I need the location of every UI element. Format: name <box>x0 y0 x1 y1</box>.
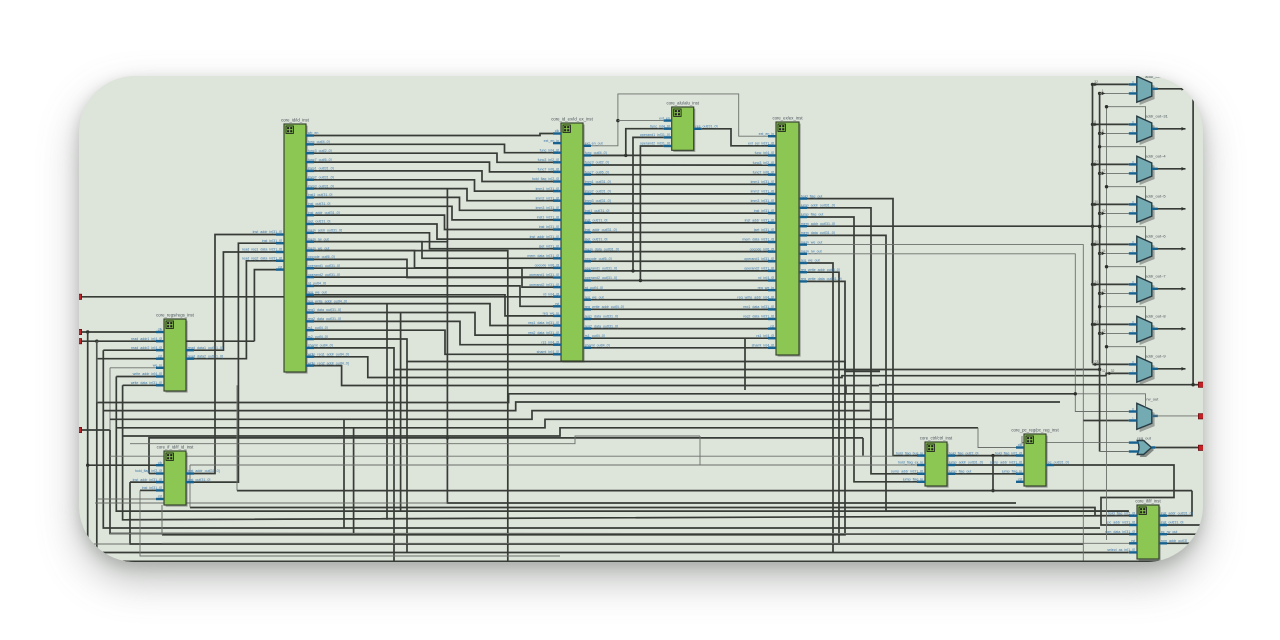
svg-text:read_data1_out[31..0]: read_data1_out[31..0] <box>188 346 223 350</box>
wire 533 <box>110 533 1129 535</box>
svg-text:ext_en_in: ext_en_in <box>759 132 775 136</box>
arrowhead mux5 in0 <box>1094 283 1098 287</box>
wire mux4 out <box>1152 248 1186 250</box>
wire rw select <box>1075 394 1145 408</box>
wire mux0 in0 <box>1093 83 1129 85</box>
wire alu res to ex <box>702 129 768 146</box>
svg-text:reg_write_addr_out[4..0]: reg_write_addr_out[4..0] <box>585 305 624 309</box>
svg-text:imm1_in[31..0]: imm1_in[31..0] <box>536 187 560 191</box>
svg-text:27: 27 <box>1102 169 1106 173</box>
wire 511 bus <box>886 510 1129 512</box>
wire id_ex row 3 to ex <box>591 174 768 176</box>
svg-text:inst_addr_in[31..0]: inst_addr_in[31..0] <box>133 478 163 482</box>
wire mem_rw to pc_reg region <box>314 242 1016 503</box>
arrowhead mux0 in1 <box>1102 92 1106 96</box>
arrowhead mux4 in1 <box>1102 252 1106 256</box>
svg-text:ext_en_out: ext_en_out <box>585 142 603 146</box>
wire id row 18 jog <box>314 295 553 316</box>
svg-text:write_data_in[31..0]: write_data_in[31..0] <box>131 381 162 385</box>
wire mux2 in1 <box>1100 172 1129 174</box>
wire mux2 select <box>1100 147 1146 161</box>
junction clk if_id <box>86 464 89 467</box>
svg-text:jset_out[31..0]: jset_out[31..0] <box>307 220 331 224</box>
junction mux0 in1 <box>1098 92 1101 95</box>
wire id_ex row 12 to ex <box>591 260 768 262</box>
svg-text:23: 23 <box>1102 289 1106 293</box>
svg-text:inst_in[31..0]: inst_in[31..0] <box>262 239 282 243</box>
svg-text:reg_write_addr_out[4..0]: reg_write_addr_out[4..0] <box>308 299 347 303</box>
svg-text:clk: clk <box>1018 443 1023 447</box>
svg-text:jump_addr_in[31..0]: jump_addr_in[31..0] <box>890 470 923 474</box>
module instance core_if_id/if_id_inst <box>133 445 220 507</box>
svg-text:hold_flag_in[2..0]: hold_flag_in[2..0] <box>995 451 1022 455</box>
arrowhead mux4 <box>1182 247 1186 251</box>
port input port rst <box>76 339 81 344</box>
svg-text:inst1_in[31..0]: inst1_in[31..0] <box>537 216 559 220</box>
wire id_ex row 2 to ex <box>591 164 768 166</box>
svg-text:operand2_out[31..0]: operand2_out[31..0] <box>308 273 340 277</box>
wire bus 427-419 <box>116 419 893 428</box>
svg-text:core_id_ex/id_ex_inst: core_id_ex/id_ex_inst <box>551 117 593 122</box>
wire ctrl to pc_reg 0 <box>955 455 1016 457</box>
svg-text:reg2_data_in[31..0]: reg2_data_in[31..0] <box>743 315 774 319</box>
arrowhead mux2 in0 <box>1094 163 1098 167</box>
svg-text:hold_flag_in[2..0]: hold_flag_in[2..0] <box>532 177 559 181</box>
wire mux1 in1 <box>1100 132 1129 134</box>
arrowhead mux1 in1 <box>1102 132 1106 136</box>
junction out trunk <box>1191 383 1194 386</box>
svg-text:rw_out: rw_out <box>1146 397 1159 402</box>
wire mux6 in1 <box>1100 332 1129 334</box>
svg-text:rs1_out[4..0]: rs1_out[4..0] <box>308 326 328 330</box>
svg-text:0: 0 <box>1132 201 1134 205</box>
svg-text:jump_addr_out[31..0]: jump_addr_out[31..0] <box>800 204 835 208</box>
wire mux5 in0 <box>1093 283 1129 285</box>
wire mem bus to port <box>879 384 1199 386</box>
svg-text:addr_out~30: addr_out~30 <box>1145 76 1168 79</box>
wire mem_we to rw in1 <box>1083 420 1129 422</box>
module instance core_regs/regs_inst <box>131 313 223 393</box>
wire rst east <box>97 340 255 342</box>
svg-text:mem_data_in[31..0]: mem_data_in[31..0] <box>742 238 774 242</box>
wire v162 <box>161 505 163 535</box>
svg-text:inst_out[31..0]: inst_out[31..0] <box>188 478 211 482</box>
junction mux2 sel <box>1098 145 1101 148</box>
svg-text:write_reg2_addr_out[4..0]: write_reg2_addr_out[4..0] <box>308 361 349 365</box>
wire 437 down to ctrl <box>862 438 864 456</box>
svg-text:ext_en: ext_en <box>659 116 670 120</box>
svg-text:1: 1 <box>1132 417 1134 421</box>
svg-text:func3_out[2..0]: func3_out[2..0] <box>585 161 609 165</box>
port output port reg <box>1198 445 1203 450</box>
arrowhead mux7 <box>1182 367 1186 371</box>
wire if pc_rw out <box>1167 533 1203 535</box>
wire mem_addr bus <box>807 225 1100 227</box>
svg-text:reg1_data_out[31..0]: reg1_data_out[31..0] <box>585 315 618 319</box>
tie <box>878 384 880 387</box>
module instance core_ex/ex_inst <box>737 116 841 357</box>
wire read_data1 to id <box>194 252 276 350</box>
svg-text:mem_data_out[31..0]: mem_data_out[31..0] <box>585 247 619 251</box>
wire if inst_addr out <box>1167 491 1192 516</box>
svg-text:34: 34 <box>1102 249 1106 253</box>
svg-text:0: 0 <box>1132 81 1134 85</box>
wire mux7 in0 terminal <box>1093 363 1129 365</box>
wire write_data <box>123 384 156 386</box>
svg-text:reg_out: reg_out <box>1137 435 1151 440</box>
wire v1022 <box>1021 436 1023 445</box>
svg-text:rd_out[4..0]: rd_out[4..0] <box>585 286 603 290</box>
wire if inst out <box>1167 524 1203 526</box>
arrowhead mux7 in0 <box>1095 363 1099 367</box>
svg-text:operand2_in[31..0]: operand2_in[31..0] <box>744 267 774 271</box>
wire mux1 in0 <box>1093 123 1129 125</box>
wire reg_out out <box>1155 447 1199 449</box>
wire v745 ext <box>744 338 746 390</box>
svg-text:imm1_out[31..0]: imm1_out[31..0] <box>585 180 611 184</box>
wire if rom_addr out <box>1167 542 1203 544</box>
wire mux0 out bend <box>1186 89 1194 99</box>
wire bus write_reg2 <box>314 366 879 386</box>
wire clk bottom bus <box>88 465 1129 552</box>
svg-text:operand1_out[31..0]: operand1_out[31..0] <box>585 267 617 271</box>
svg-text:opcode_in[6..0]: opcode_in[6..0] <box>535 264 560 268</box>
junction mux6 in0 <box>1091 323 1094 326</box>
wire id row 20 jog <box>314 313 553 336</box>
svg-text:core_ctrl/ctrl_inst: core_ctrl/ctrl_inst <box>920 436 953 441</box>
wire mux4 select <box>1100 227 1146 241</box>
wire id func7_out[6..0] to id_ex <box>314 162 553 172</box>
wire reg_out in0 <box>1022 442 1129 444</box>
svg-text:jset_out[31..0]: jset_out[31..0] <box>584 238 608 242</box>
svg-text:rs1_in[4..0]: rs1_in[4..0] <box>541 340 559 344</box>
svg-text:reg_we_out: reg_we_out <box>585 295 604 299</box>
mux addr mux 2 <box>1129 154 1167 185</box>
svg-text:reg_write_addr_out[4..0]: reg_write_addr_out[4..0] <box>801 268 840 272</box>
svg-text:func3_in[2..0]: func3_in[2..0] <box>538 158 560 162</box>
wire v353 deep <box>353 428 355 534</box>
wire 544 bus <box>130 482 1083 544</box>
wire rw out <box>1152 415 1199 417</box>
arrowhead mux2 <box>1182 167 1186 171</box>
svg-text:func_out[4..0]: func_out[4..0] <box>585 151 607 155</box>
wire hold_flag to if_id <box>149 473 156 475</box>
wire id imm2_out[31..0] to id_ex <box>314 180 553 191</box>
svg-text:1: 1 <box>1132 290 1134 294</box>
svg-text:1: 1 <box>1102 89 1104 93</box>
svg-text:wb_en: wb_en <box>308 131 319 135</box>
arrowhead mux3 in0 <box>1094 203 1098 207</box>
wire clk to if_id <box>88 332 156 465</box>
svg-text:write_addr_in[4..0]: write_addr_in[4..0] <box>133 372 163 376</box>
svg-text:mem_we_out: mem_we_out <box>801 240 823 244</box>
port input port clk <box>76 329 81 334</box>
wire v394 deep <box>393 370 395 562</box>
junction mux5 in0 <box>1091 283 1094 286</box>
svg-text:1: 1 <box>1132 370 1134 374</box>
wire id_ex row 4 to ex <box>591 183 768 185</box>
svg-text:inst_addr_in[31..0]: inst_addr_in[31..0] <box>530 235 560 239</box>
wire 556 <box>140 490 560 556</box>
junction func <box>624 154 627 157</box>
svg-text:reg2_data_out[31..0]: reg2_data_out[31..0] <box>308 317 341 321</box>
svg-text:jset_in[31..0]: jset_in[31..0] <box>753 228 774 232</box>
wire 544 left <box>79 543 130 545</box>
wire id_ex row 15 to ex <box>591 289 768 291</box>
svg-text:func_in[4..0]: func_in[4..0] <box>540 148 560 152</box>
junction mem_addr trunk1 <box>1091 225 1094 228</box>
svg-text:1: 1 <box>1132 130 1134 134</box>
wire mux1 select <box>1107 107 1146 121</box>
arrowhead mux3 in1 <box>1102 212 1106 216</box>
wire id wb_en to id_ex <box>314 134 553 136</box>
svg-text:mem_data_out[31..0]: mem_data_out[31..0] <box>801 231 835 235</box>
svg-text:write_reg1_addr_out[4..0]: write_reg1_addr_out[4..0] <box>308 352 349 356</box>
wire id_ex row 10 to ex <box>591 241 768 243</box>
svg-text:rs1_out[4..0]: rs1_out[4..0] <box>585 334 605 338</box>
svg-text:core_pc_reg/pc_reg_inst: core_pc_reg/pc_reg_inst <box>1011 428 1059 433</box>
wire mux1 out <box>1152 128 1186 130</box>
svg-text:22: 22 <box>1102 329 1106 333</box>
svg-text:read_reg1_data_in[31..0]: read_reg1_data_in[31..0] <box>242 248 282 252</box>
svg-text:pc_out[31..0]: pc_out[31..0] <box>1048 461 1069 465</box>
wire id mem_addr_out[31..0] to id_ex <box>314 233 553 249</box>
junction mux1 sel <box>1105 105 1108 108</box>
wire rst bottom <box>97 359 560 562</box>
wire v447 upper <box>446 189 448 242</box>
wire id_ex row 11 to ex <box>591 251 768 253</box>
svg-text:jump_flag_in: jump_flag_in <box>902 478 923 482</box>
junction mux6 in1 <box>1098 332 1101 335</box>
svg-text:0: 0 <box>1132 361 1134 365</box>
junction mux3 in0 <box>1091 203 1094 206</box>
wire mux3 in0 <box>1093 203 1129 205</box>
svg-text:addr_out~31: addr_out~31 <box>1145 114 1168 119</box>
arrowhead mux3 <box>1182 207 1186 211</box>
svg-text:opcode_out[6..0]: opcode_out[6..0] <box>308 255 335 259</box>
svg-text:rd_in[4..0]: rd_in[4..0] <box>758 276 774 280</box>
svg-text:func3_out[2..0]: func3_out[2..0] <box>308 149 332 153</box>
wire mux3 in1 <box>1100 212 1129 214</box>
wire 490 bus <box>237 490 1192 492</box>
svg-text:shamt_out[4..0]: shamt_out[4..0] <box>585 344 610 348</box>
svg-text:func7_out[6..0]: func7_out[6..0] <box>308 158 332 162</box>
wire inst_addr in <box>130 481 156 483</box>
wire v993 <box>992 456 994 491</box>
svg-text:addr_out~6: addr_out~6 <box>1145 234 1166 239</box>
wire hold to if <box>190 508 1129 516</box>
arrowhead mux1 in0 <box>1094 123 1098 127</box>
svg-text:22: 22 <box>1094 360 1098 364</box>
wire inst in <box>140 489 156 491</box>
svg-text:1: 1 <box>1132 330 1134 334</box>
wire id jset_out[31..0] to id_ex <box>314 224 553 239</box>
svg-text:opcode_out[6..0]: opcode_out[6..0] <box>585 257 612 261</box>
wire read_addr1 <box>103 349 156 351</box>
wire id opcode_out[6..0] to id_ex <box>314 259 553 277</box>
wire v400 deep <box>400 313 402 512</box>
svg-text:8: 8 <box>1094 120 1096 124</box>
svg-text:reg2_data_in[31..0]: reg2_data_in[31..0] <box>528 331 559 335</box>
svg-text:inst_out[31..0]: inst_out[31..0] <box>1161 521 1184 525</box>
svg-text:inst_addr_out[31..0]: inst_addr_out[31..0] <box>1161 511 1193 515</box>
wire v893b <box>892 419 894 455</box>
wire id mem_rw_out to id_ex <box>314 242 553 259</box>
mux addr mux 6 <box>1129 314 1167 345</box>
wire mux3 out <box>1152 208 1186 210</box>
svg-text:func7_out[6..0]: func7_out[6..0] <box>585 170 609 174</box>
svg-text:0: 0 <box>1132 281 1134 285</box>
svg-text:reg1_data_out[31..0]: reg1_data_out[31..0] <box>308 308 341 312</box>
junction mux6 sel <box>1098 305 1101 308</box>
svg-text:read_addr2_in[4..0]: read_addr2_in[4..0] <box>131 346 162 350</box>
wire id func3_out[2..0] to id_ex <box>314 153 553 162</box>
svg-text:inst_addr_in[31..0]: inst_addr_in[31..0] <box>745 218 775 222</box>
svg-text:rs2_out[4..0]: rs2_out[4..0] <box>308 335 328 339</box>
wire rs1 jog <box>591 337 768 339</box>
svg-text:addr_out~8: addr_out~8 <box>1145 314 1166 319</box>
svg-text:ext_sel_in[31..0]: ext_sel_in[31..0] <box>748 142 774 146</box>
svg-text:hold_flag_ex_in: hold_flag_ex_in <box>898 461 923 465</box>
wire mux trunk 3 <box>1106 107 1108 540</box>
svg-text:func_in[4..0]: func_in[4..0] <box>650 124 670 128</box>
junction mem_addr trunk2 <box>1098 225 1101 228</box>
arrowhead mux5 in1 <box>1102 292 1106 296</box>
mux addr mux 4 <box>1129 234 1167 265</box>
svg-text:clk: clk <box>158 328 163 332</box>
wire bus 419-411 <box>110 411 870 420</box>
svg-text:operand1_in[31..0]: operand1_in[31..0] <box>744 257 774 261</box>
module instance core_alu/alu_inst <box>640 101 718 152</box>
junction mux5 sel <box>1105 265 1108 268</box>
wire if_id inst_addr to id <box>194 235 276 474</box>
wire left v97 <box>96 341 98 402</box>
svg-text:inst_out[31..0]: inst_out[31..0] <box>308 202 331 206</box>
wire id row 17 jog <box>314 286 553 306</box>
port output port mem <box>1198 382 1203 387</box>
svg-text:core_ex/ex_inst: core_ex/ex_inst <box>772 116 803 121</box>
wire mux7 in1 terminal <box>1106 373 1129 375</box>
junction mux2 in0 <box>1091 163 1094 166</box>
wire ext_en to alu <box>618 120 664 122</box>
svg-text:read_data2_out[31..0]: read_data2_out[31..0] <box>188 354 223 358</box>
wire id row 15 jog <box>314 268 553 287</box>
wire mux6 select <box>1100 307 1146 321</box>
svg-text:operand2_out[31..0]: operand2_out[31..0] <box>585 276 617 280</box>
wire mux4 in0 <box>1093 243 1129 245</box>
svg-text:imm3_out[31..0]: imm3_out[31..0] <box>308 184 334 188</box>
wire pc_out to if <box>1054 465 1174 525</box>
svg-text:1: 1 <box>1132 210 1134 214</box>
svg-text:core_id/id_inst: core_id/id_inst <box>281 118 310 123</box>
svg-text:jump_addr_in[31..0]: jump_addr_in[31..0] <box>989 461 1022 465</box>
svg-text:addr_out~5: addr_out~5 <box>1145 194 1166 199</box>
arrowhead mux4 in0 <box>1094 243 1098 247</box>
wire if_id rst <box>97 498 156 500</box>
svg-text:mem_rw_out: mem_rw_out <box>308 237 329 241</box>
svg-text:0: 0 <box>1132 121 1134 125</box>
wire ctrl to pc_reg 2 <box>955 473 1016 475</box>
wire mux0 in1 <box>1100 92 1129 94</box>
svg-text:rst: rst <box>158 354 162 358</box>
wire if_id inst to id <box>194 243 276 482</box>
port input port 1 <box>76 294 81 299</box>
wire mux2 out <box>1152 168 1186 170</box>
wire v162b <box>161 505 163 535</box>
wire v870 up <box>869 385 871 411</box>
svg-text:pc_addr_in[31..0]: pc_addr_in[31..0] <box>1107 521 1135 525</box>
wire func to alu stub <box>591 154 626 156</box>
wire id_ex row 9 to ex <box>591 231 768 233</box>
wire mux5 select <box>1107 267 1146 281</box>
wire reg_wdata bottom <box>162 281 845 534</box>
junction mux4 in0 <box>1091 243 1094 246</box>
svg-text:hold_flag_out[2..0]: hold_flag_out[2..0] <box>949 451 979 455</box>
svg-text:core_if/if_inst: core_if/if_inst <box>1135 499 1161 504</box>
wire mux5 in1 <box>1100 292 1129 294</box>
junction mux4 sel <box>1098 225 1101 228</box>
junction ext_en <box>616 119 619 122</box>
wire write_addr bottom <box>116 377 1129 512</box>
arrowhead mux6 <box>1182 327 1186 331</box>
svg-text:mem_rw_out: mem_rw_out <box>801 250 822 254</box>
svg-text:ext_en_in: ext_en_in <box>544 139 560 143</box>
svg-text:inst1_out[31..0]: inst1_out[31..0] <box>585 209 610 213</box>
wire read_data2 to id <box>194 261 276 359</box>
wire id inst1_out[31..0] to id_ex <box>314 197 553 210</box>
svg-text:clk: clk <box>555 129 560 133</box>
wire write_addr <box>116 376 156 378</box>
wire jump_flag to ctrl <box>807 217 917 482</box>
wire read_addr1 bottom <box>103 350 1100 528</box>
svg-text:mem_addr_out[31..0]: mem_addr_out[31..0] <box>801 222 835 226</box>
svg-text:30: 30 <box>1094 240 1098 244</box>
tie2 <box>79 552 88 554</box>
wire id_ex row 8 to ex <box>591 222 768 224</box>
svg-text:34: 34 <box>1094 280 1098 284</box>
arrowhead mux0 in0 <box>1094 83 1098 87</box>
junction operand1 <box>631 269 634 272</box>
svg-text:addr_out~9: addr_out~9 <box>1145 354 1166 359</box>
svg-text:30: 30 <box>1094 200 1098 204</box>
svg-text:32: 32 <box>1102 369 1106 373</box>
wire clk to pc_reg <box>978 428 1016 448</box>
mux rw_out <box>1129 403 1158 432</box>
svg-text:pc_rw_out: pc_rw_out <box>1161 530 1178 534</box>
svg-text:we_in: we_in <box>153 364 162 368</box>
svg-text:operand2_in[31..0]: operand2_in[31..0] <box>529 283 559 287</box>
svg-text:hold_flag_bus_in: hold_flag_bus_in <box>896 451 923 455</box>
wire input 4 <box>79 429 110 431</box>
module instance core_if/if_inst <box>1105 499 1192 561</box>
module instance core_pc_reg/pc_reg_inst <box>989 428 1068 488</box>
junction rst <box>95 340 98 343</box>
svg-text:shamt_out[4..0]: shamt_out[4..0] <box>308 344 333 348</box>
svg-text:read_addr1_in[4..0]: read_addr1_in[4..0] <box>131 337 162 341</box>
arrowhead mux6 in0 <box>1094 323 1098 327</box>
wire v846 <box>845 385 847 394</box>
wire mem_we bottom <box>314 251 1203 562</box>
svg-text:opcode_in[6..0]: opcode_in[6..0] <box>750 247 775 251</box>
junction rw sel <box>1074 392 1077 395</box>
svg-text:reg_we_in: reg_we_in <box>543 312 560 316</box>
wire v1083 down <box>1082 421 1084 564</box>
svg-text:rom_data_in[31..0]: rom_data_in[31..0] <box>1105 530 1135 534</box>
svg-text:core_alu/alu_inst: core_alu/alu_inst <box>666 101 699 106</box>
svg-text:inst_addr_out[31..0]: inst_addr_out[31..0] <box>308 211 340 215</box>
svg-text:jset_in[31..0]: jset_in[31..0] <box>538 244 559 248</box>
svg-text:1: 1 <box>1132 250 1134 254</box>
